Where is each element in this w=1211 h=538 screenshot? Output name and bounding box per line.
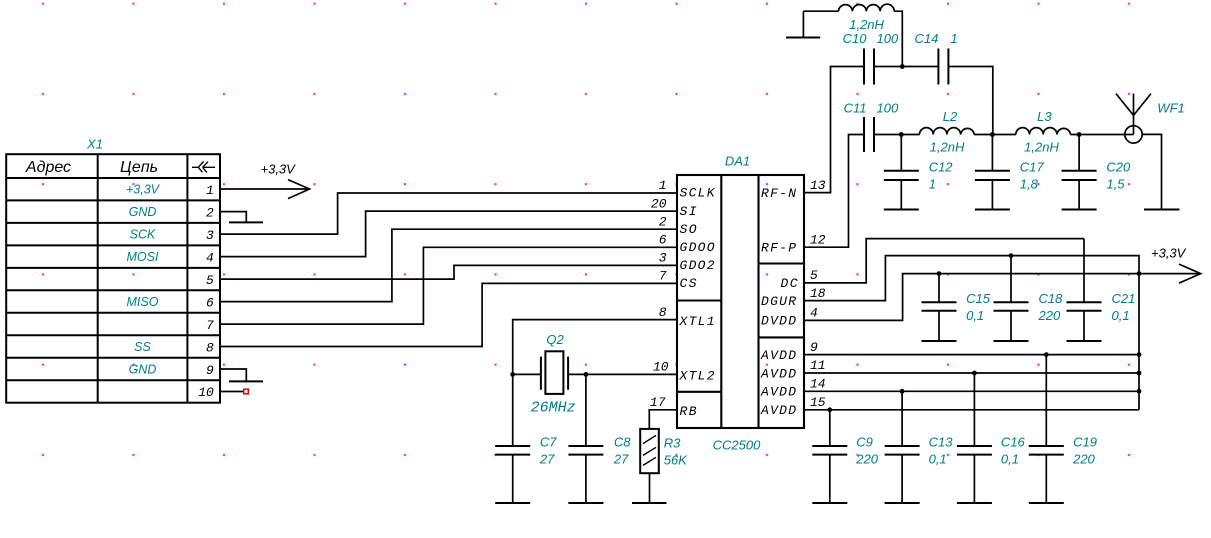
svg-text:Цепь: Цепь	[120, 159, 158, 176]
svg-text:C7: C7	[540, 435, 557, 450]
svg-text:CC2500: CC2500	[713, 438, 761, 453]
svg-text:1,2nH: 1,2nH	[849, 17, 884, 32]
svg-text:8: 8	[659, 305, 667, 320]
svg-text:Адрес: Адрес	[25, 159, 71, 176]
svg-text:1: 1	[951, 31, 958, 46]
svg-text:4: 4	[810, 306, 818, 321]
power arrow +3,3V	[288, 180, 310, 199]
wire C11 to L2	[874, 134, 920, 136]
svg-text:3: 3	[206, 228, 214, 243]
wire L3 to antenna	[1071, 134, 1134, 136]
wire AVDD pin 9	[804, 354, 1139, 356]
junction rail cross	[1137, 271, 1142, 276]
svg-text:2: 2	[659, 214, 667, 229]
svg-text:SCLK: SCLK	[680, 186, 716, 201]
ground C17	[975, 209, 1010, 211]
svg-text:13: 13	[810, 178, 826, 193]
svg-text:1: 1	[929, 176, 936, 191]
wire C14 to L2/L3 node	[948, 67, 992, 135]
svg-text:C9: C9	[856, 435, 873, 450]
wire RF-P to C11	[804, 135, 864, 248]
svg-text:1,2nH: 1,2nH	[1024, 139, 1059, 154]
svg-text:17: 17	[650, 395, 666, 410]
capacitor C9	[812, 410, 847, 503]
svg-text:WF1: WF1	[1157, 100, 1184, 115]
svg-text:+3,3V: +3,3V	[261, 162, 297, 177]
svg-text:6: 6	[206, 295, 214, 310]
svg-text:C10: C10	[843, 31, 868, 46]
wire inductor to C10 node	[894, 11, 902, 66]
svg-text:3: 3	[659, 251, 667, 266]
junction C9 top	[827, 407, 832, 412]
wire XTL1 to crystal	[513, 320, 677, 375]
junction C12 node	[899, 132, 904, 137]
wire AVDD pin 14	[804, 390, 1139, 392]
wire pin 9 to ground	[221, 369, 246, 381]
inductor L1	[839, 4, 895, 11]
ground C21	[1067, 340, 1102, 342]
ground C7	[495, 502, 530, 504]
ground C18	[994, 340, 1029, 342]
svg-text:7: 7	[206, 318, 214, 333]
svg-text:SCK: SCK	[130, 228, 156, 242]
svg-text:10: 10	[653, 360, 669, 375]
ground top left	[786, 37, 820, 39]
junction C15 top	[937, 271, 942, 276]
junction avdd right 9	[1137, 352, 1142, 357]
svg-text:DVDD: DVDD	[761, 314, 796, 329]
svg-text:C14: C14	[915, 31, 939, 46]
svg-text:1: 1	[206, 183, 214, 198]
wire pin 2 to ground	[221, 212, 246, 223]
svg-text:Q2: Q2	[546, 332, 564, 347]
svg-text:C17: C17	[1020, 159, 1045, 174]
wire pin 5 to GDO0	[221, 265, 677, 279]
svg-text:+3,3V: +3,3V	[126, 183, 161, 197]
ground antenna	[1144, 209, 1180, 211]
capacitor C17	[975, 135, 1010, 210]
svg-text:C16: C16	[1001, 435, 1026, 450]
svg-text:0,1: 0,1	[1112, 308, 1130, 323]
capacitor C13	[885, 391, 920, 503]
svg-text:8: 8	[206, 340, 214, 355]
wire MOSI to SI	[221, 211, 677, 257]
svg-text:56K: 56K	[664, 453, 688, 468]
svg-text:10: 10	[198, 385, 214, 400]
ground C13	[885, 502, 920, 504]
capacitor C20	[1062, 135, 1097, 210]
capacitor C15	[922, 274, 957, 341]
svg-text:SI: SI	[680, 204, 697, 219]
svg-text:11: 11	[810, 358, 826, 373]
svg-text:L3: L3	[1037, 109, 1052, 124]
junction C18 top	[1009, 253, 1014, 258]
svg-text:0,1: 0,1	[1001, 452, 1019, 467]
capacitor C11	[864, 117, 874, 152]
svg-text:7: 7	[659, 269, 667, 284]
capacitor C8	[568, 374, 603, 503]
svg-text:RF-P: RF-P	[761, 241, 796, 256]
wire pin 7 to GDO2	[221, 247, 677, 324]
svg-text:DA1: DA1	[725, 153, 750, 168]
capacitor C7	[495, 374, 530, 503]
wire antenna to ground	[1142, 134, 1161, 209]
ground R3	[632, 502, 667, 504]
junction C16 top	[972, 371, 977, 376]
svg-text:9: 9	[206, 363, 214, 378]
svg-text:2: 2	[206, 206, 214, 221]
ground C20	[1062, 209, 1097, 211]
wire MISO to SO	[221, 229, 677, 301]
ground C16	[957, 502, 992, 504]
inductor L3	[1016, 128, 1071, 135]
wire pin 10 stub	[221, 391, 244, 393]
connector X1 table	[6, 154, 220, 403]
svg-text:GND: GND	[129, 363, 157, 377]
junction C13 top	[900, 389, 905, 394]
svg-text:C20: C20	[1106, 159, 1131, 174]
svg-text:GND: GND	[129, 205, 157, 219]
svg-text:12: 12	[810, 232, 826, 247]
ground pin 9	[229, 380, 263, 382]
svg-text:6: 6	[659, 233, 667, 248]
svg-text:1,2nH: 1,2nH	[930, 139, 965, 154]
ground C12	[884, 209, 919, 211]
ground C9	[812, 502, 847, 504]
svg-text:C13: C13	[929, 435, 954, 450]
ground C8	[568, 502, 603, 504]
svg-text:C15: C15	[966, 291, 991, 306]
svg-text:18: 18	[810, 286, 826, 301]
junction avdd right 14	[1137, 389, 1142, 394]
junction crystal right	[584, 372, 589, 377]
svg-text:MISO: MISO	[127, 295, 159, 309]
wire DVDD rail +3,3V arrow	[804, 274, 1199, 321]
svg-text:5: 5	[810, 268, 818, 283]
ground C19	[1029, 502, 1064, 504]
junction C19 top	[1044, 352, 1049, 357]
svg-text:RF-N: RF-N	[761, 186, 796, 201]
svg-text:C11: C11	[844, 101, 867, 116]
wire AVDD pin 11	[804, 372, 1139, 374]
svg-text:C18: C18	[1039, 291, 1064, 306]
svg-text:GDOO: GDOO	[680, 240, 715, 255]
svg-text:20: 20	[651, 196, 667, 211]
antenna WF1	[1116, 94, 1151, 143]
svg-text:C19: C19	[1073, 435, 1097, 450]
svg-text:+3,3V: +3,3V	[1151, 245, 1187, 260]
junction C20 node	[1077, 132, 1082, 137]
capacitor C18	[994, 256, 1029, 341]
svg-text:SO: SO	[680, 222, 697, 237]
svg-text:220: 220	[855, 452, 878, 467]
svg-text:DGUR: DGUR	[761, 294, 796, 309]
connector direction symbol	[192, 161, 215, 172]
svg-text:GDO2: GDO2	[680, 258, 715, 273]
wire DC rail +3,3V	[804, 239, 1084, 283]
svg-text:DC: DC	[781, 276, 798, 291]
wire L2 to L3	[974, 134, 1016, 136]
svg-text:0,1: 0,1	[966, 308, 984, 323]
capacitor C16	[957, 373, 992, 503]
svg-text:100: 100	[877, 31, 899, 46]
svg-text:100: 100	[877, 101, 899, 116]
junction avdd right 11	[1137, 371, 1142, 376]
svg-text:SS: SS	[134, 340, 151, 354]
resistor R3	[640, 429, 659, 473]
svg-text:C8: C8	[614, 435, 631, 450]
ground pin 2	[229, 221, 263, 223]
unconnected marker pin 10	[244, 389, 249, 394]
svg-text:1: 1	[659, 178, 667, 193]
wire crystal to XTL2	[513, 373, 677, 375]
svg-text:X1: X1	[86, 136, 103, 151]
svg-text:220: 220	[1072, 452, 1095, 467]
capacitor C21	[1067, 239, 1102, 341]
svg-text:R3: R3	[664, 436, 681, 451]
svg-text:9: 9	[810, 340, 818, 355]
capacitor C10	[864, 49, 874, 85]
svg-text:27: 27	[539, 452, 555, 467]
svg-text:26MHz: 26MHz	[531, 400, 576, 417]
svg-text:CS: CS	[680, 276, 697, 291]
wire RF-N to C10	[804, 67, 864, 193]
IC DA1 CC2500 body	[677, 175, 804, 428]
junction L1 drop	[900, 64, 905, 69]
capacitor C19	[1029, 355, 1064, 503]
wire +3,3V from pin 1	[221, 188, 308, 190]
wire DGUR rail	[804, 256, 1139, 410]
crystal Q2	[541, 351, 568, 394]
wire AVDD pin 15	[804, 409, 1139, 411]
junction C17 node	[990, 132, 995, 137]
wire ground to inductor	[803, 11, 838, 37]
wire SS to CS	[221, 283, 677, 346]
svg-text:C21: C21	[1112, 291, 1136, 306]
junction crystal left	[510, 372, 515, 377]
power arrow +3,3V right	[1179, 264, 1201, 283]
capacitor C12	[884, 135, 919, 210]
wire SCK to SCLK	[221, 193, 677, 234]
svg-text:220: 220	[1038, 308, 1061, 323]
ground C15	[922, 340, 957, 342]
svg-text:1,5: 1,5	[1106, 176, 1125, 191]
wire R3 to ground	[649, 473, 651, 503]
svg-text:L2: L2	[943, 109, 958, 124]
inductor L2	[920, 128, 975, 135]
svg-text:5: 5	[206, 273, 214, 288]
capacitor C14	[938, 49, 948, 85]
svg-text:C12: C12	[929, 159, 954, 174]
svg-text:RB: RB	[680, 404, 697, 419]
svg-text:0,1: 0,1	[929, 452, 947, 467]
svg-text:14: 14	[810, 377, 826, 392]
svg-text:27: 27	[613, 452, 629, 467]
wire RB to R3	[649, 410, 677, 429]
svg-text:15: 15	[810, 395, 826, 410]
wire C10 to C14	[874, 66, 938, 68]
svg-text:MOSI: MOSI	[127, 250, 159, 264]
svg-text:1,8: 1,8	[1020, 176, 1039, 191]
svg-text:4: 4	[206, 250, 214, 265]
